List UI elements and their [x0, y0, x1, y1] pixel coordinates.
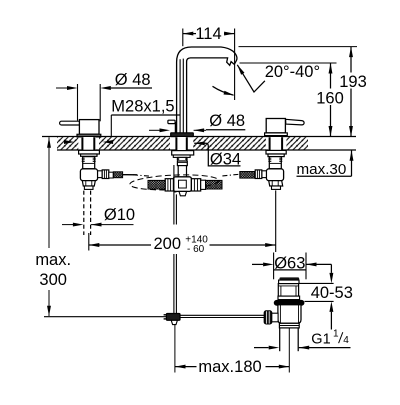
svg-text:M28x1,5: M28x1,5 [111, 97, 174, 115]
svg-text:200: 200 [154, 235, 182, 253]
svg-text:Ø34: Ø34 [210, 151, 241, 169]
svg-text:114: 114 [195, 25, 221, 43]
svg-text:- 60: - 60 [187, 244, 205, 255]
svg-text:max.30: max.30 [297, 161, 347, 178]
svg-text:max.: max. [35, 251, 71, 269]
svg-text:40-53: 40-53 [311, 284, 353, 302]
svg-text:160: 160 [316, 90, 344, 108]
svg-text:20°-40°: 20°-40° [265, 63, 320, 81]
svg-text:Ø 48: Ø 48 [209, 112, 245, 130]
svg-text:Ø10: Ø10 [104, 206, 135, 224]
svg-text:1: 1 [333, 328, 339, 339]
svg-text:4: 4 [343, 335, 349, 346]
svg-text:193: 193 [339, 73, 367, 91]
svg-text:Ø63: Ø63 [274, 255, 305, 273]
svg-text:300: 300 [39, 271, 67, 289]
svg-text:G1: G1 [311, 331, 330, 347]
svg-text:Ø 48: Ø 48 [115, 71, 151, 89]
svg-text:max.180: max.180 [198, 358, 261, 376]
